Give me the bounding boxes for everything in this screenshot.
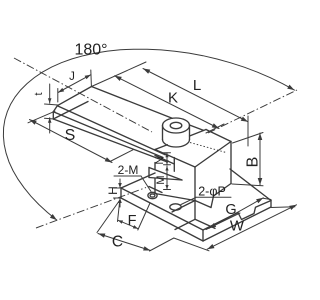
svg-text:F: F bbox=[128, 213, 137, 229]
svg-text:2-M: 2-M bbox=[118, 163, 139, 177]
svg-text:G: G bbox=[225, 202, 236, 218]
svg-text:N: N bbox=[154, 156, 166, 164]
svg-text:L: L bbox=[193, 77, 201, 94]
svg-text:C: C bbox=[112, 234, 123, 251]
svg-text:180°: 180° bbox=[74, 42, 107, 59]
svg-text:S: S bbox=[65, 127, 76, 144]
svg-text:B: B bbox=[245, 157, 262, 168]
svg-text:J: J bbox=[69, 71, 75, 83]
svg-text:2-φP: 2-φP bbox=[198, 185, 226, 199]
svg-text:K: K bbox=[168, 90, 178, 107]
svg-text:t: t bbox=[33, 92, 45, 95]
svg-text:W: W bbox=[230, 218, 245, 235]
svg-text:H: H bbox=[106, 186, 120, 195]
svg-text:M: M bbox=[155, 175, 167, 184]
